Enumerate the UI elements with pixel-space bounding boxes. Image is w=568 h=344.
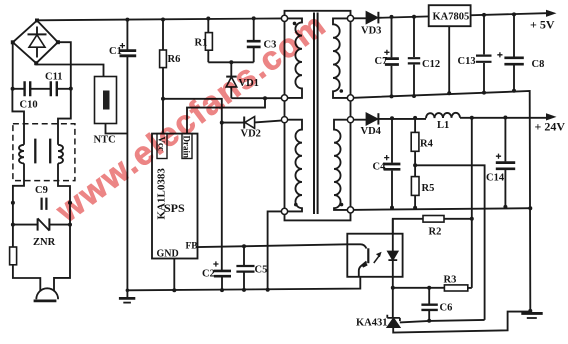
svg-text:FB: FB [186, 242, 199, 252]
svg-text:R2: R2 [429, 227, 442, 238]
svg-text:C14: C14 [486, 173, 505, 184]
svg-text:ZNR: ZNR [33, 237, 56, 248]
svg-text:NTC: NTC [94, 135, 116, 146]
svg-text:VD4: VD4 [361, 126, 382, 137]
svg-text:C5: C5 [255, 265, 268, 276]
svg-text:KA431: KA431 [356, 318, 388, 329]
svg-text:C13: C13 [458, 56, 476, 67]
svg-text:C1: C1 [109, 46, 122, 57]
svg-text:C12: C12 [422, 59, 440, 70]
svg-text:R3: R3 [444, 275, 457, 286]
svg-text:C9: C9 [35, 185, 48, 196]
svg-text:GND: GND [157, 249, 179, 260]
svg-text:R1: R1 [195, 38, 208, 49]
svg-text:R4: R4 [420, 139, 434, 150]
svg-text:VD3: VD3 [361, 26, 381, 37]
svg-text:L1: L1 [437, 120, 449, 131]
svg-text:R6: R6 [168, 54, 181, 65]
svg-text:VD2: VD2 [241, 129, 261, 140]
svg-text:C8: C8 [532, 59, 545, 70]
svg-text:R5: R5 [422, 183, 435, 194]
svg-text:C6: C6 [440, 303, 453, 314]
svg-text:C10: C10 [20, 100, 38, 111]
svg-text:C2: C2 [202, 269, 215, 280]
svg-text:C7: C7 [375, 56, 388, 67]
svg-text:+ 24V: + 24V [535, 120, 566, 134]
svg-text:C11: C11 [45, 72, 63, 83]
svg-text:KA7805: KA7805 [433, 12, 470, 23]
svg-text:+ 5V: + 5V [530, 18, 555, 32]
svg-text:KA1L0383: KA1L0383 [156, 168, 168, 220]
svg-text:C4: C4 [373, 162, 387, 173]
